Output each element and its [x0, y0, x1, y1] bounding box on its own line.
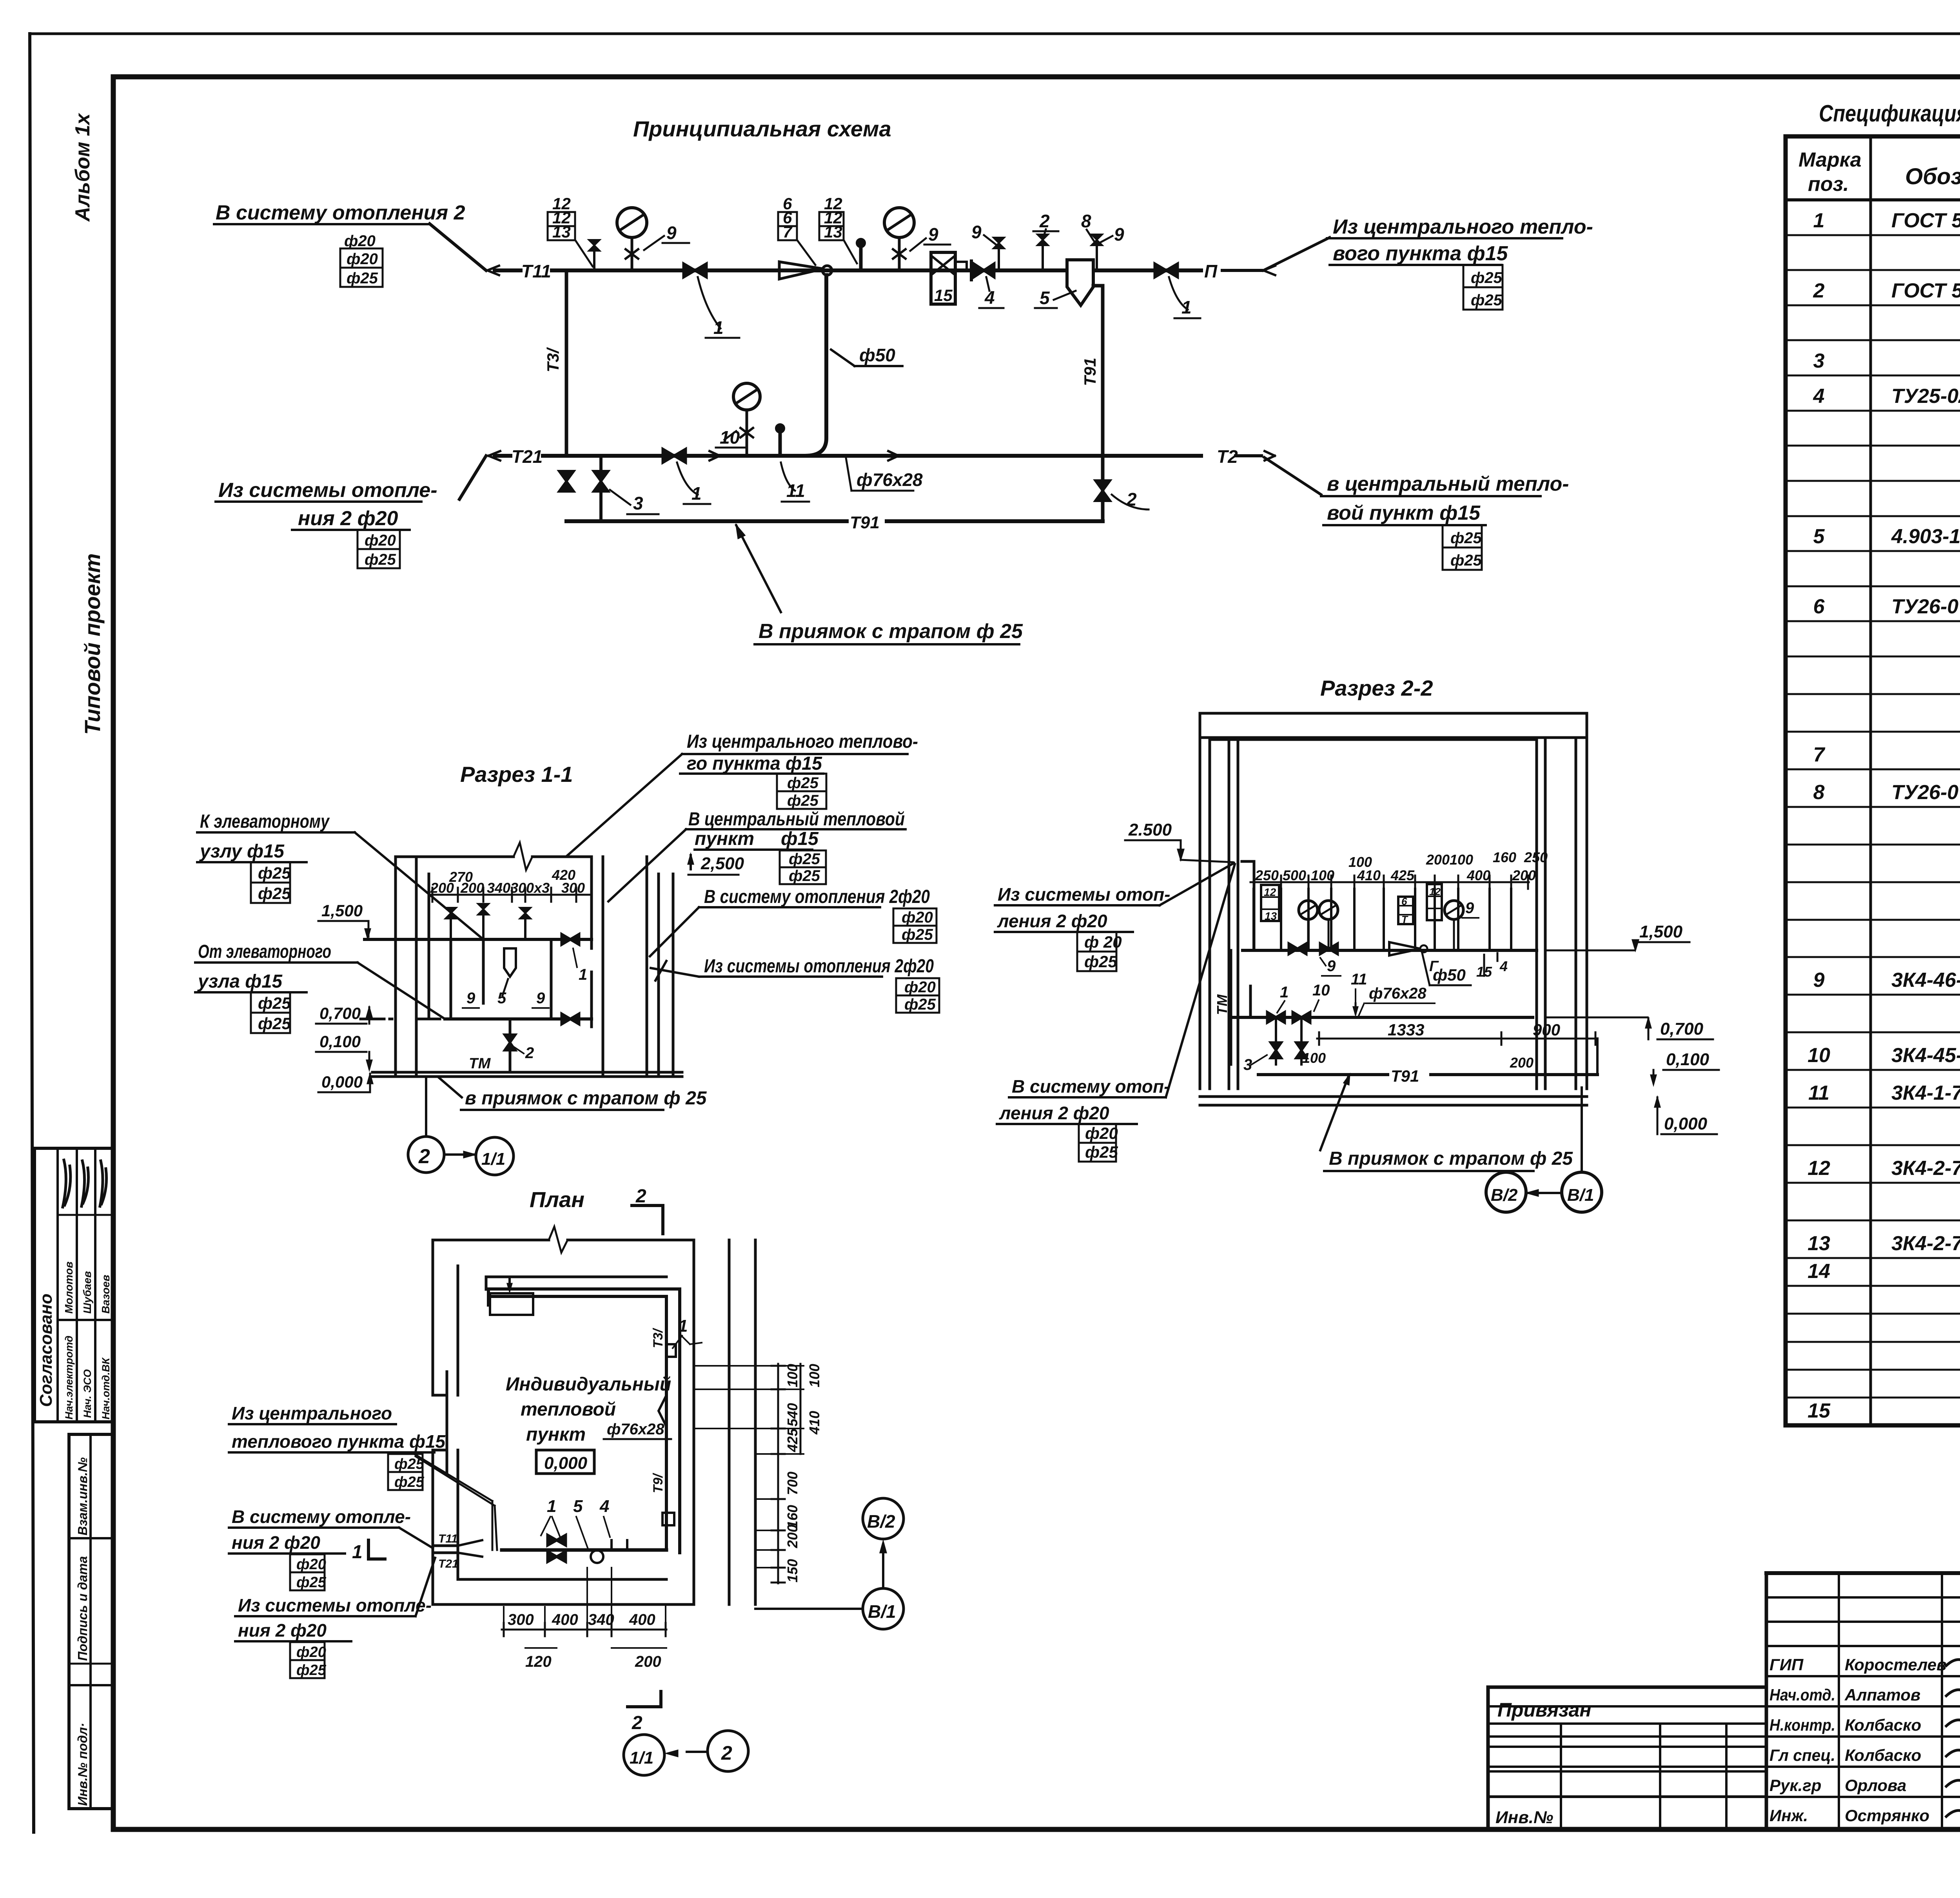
svg-text:Острянко: Острянко — [1845, 1806, 1929, 1825]
svg-text:7: 7 — [1813, 743, 1826, 766]
node: pressure gauge mid — [884, 208, 914, 237]
node: arrow at T11 start — [487, 266, 499, 275]
svg-text:410: 410 — [806, 1411, 822, 1435]
svg-text:Молотов: Молотов — [63, 1262, 75, 1314]
node: stem valve 2 — [1042, 244, 1044, 270]
svg-text:300х3: 300х3 — [510, 880, 550, 896]
wire: pipe level 1500 section 2-2 — [1243, 949, 1537, 952]
svg-text:Т21: Т21 — [438, 1557, 459, 1570]
svg-text:6: 6 — [1401, 896, 1407, 907]
valve 1 right top — [1155, 264, 1178, 277]
svg-text:В систему отопле-: В систему отопле- — [232, 1506, 411, 1527]
wire: diagonal to system heating 2 — [430, 224, 486, 270]
svg-text:Т3/: Т3/ — [544, 347, 562, 372]
svg-text:Из системы отопле-: Из системы отопле- — [238, 1595, 432, 1615]
svg-text:ления 2 ф20: ления 2 ф20 — [997, 911, 1107, 931]
wire: lower pipe in section 1-1 — [361, 1018, 592, 1021]
svg-text:Индивидуальный: Индивидуальный — [506, 1374, 671, 1395]
svg-text:10: 10 — [720, 427, 740, 448]
svg-text:В систему отопления 2: В систему отопления 2 — [216, 201, 465, 224]
node: label 9 with leader — [644, 236, 664, 250]
svg-text:300: 300 — [508, 1611, 534, 1628]
svg-text:13: 13 — [552, 223, 571, 241]
svg-text:пункт: пункт — [526, 1424, 586, 1445]
node: arrow T21 — [488, 451, 500, 460]
svg-text:2: 2 — [635, 1186, 646, 1207]
svg-text:11: 11 — [1808, 1082, 1829, 1104]
svg-text:ТУ26-07-1255-: ТУ26-07-1255- — [1891, 595, 1960, 618]
svg-text:9: 9 — [666, 223, 677, 243]
svg-text:9: 9 — [536, 990, 545, 1007]
node: section 2-2 walls — [1200, 713, 1587, 1105]
node: signatures — [1946, 1656, 1960, 1884]
svg-text:ф 20: ф 20 — [1084, 933, 1122, 951]
node: air valve item 8 — [593, 249, 595, 270]
svg-text:1: 1 — [579, 966, 587, 983]
node: title block — [1488, 1573, 1960, 1829]
svg-text:Нач.отд.ВК: Нач.отд.ВК — [100, 1357, 112, 1419]
svg-text:9: 9 — [971, 222, 982, 242]
svg-text:Коростелев: Коростелев — [1845, 1655, 1947, 1674]
svg-text:1333: 1333 — [1388, 1021, 1424, 1039]
svg-text:100: 100 — [1311, 867, 1334, 883]
svg-text:ТУ26-07-1061-73: ТУ26-07-1061-73 — [1891, 781, 1960, 804]
svg-text:ТУ25-02.160970-76: ТУ25-02.160970-76 — [1891, 385, 1960, 408]
svg-text:5: 5 — [573, 1497, 583, 1516]
svg-text:Инв.№ подл·: Инв.№ подл· — [75, 1723, 90, 1806]
svg-text:200: 200 — [460, 880, 484, 896]
svg-text:Разрез 2-2: Разрез 2-2 — [1320, 676, 1433, 700]
svg-text:ф20: ф20 — [296, 1556, 326, 1573]
svg-text:Н.контр.: Н.контр. — [1769, 1716, 1835, 1734]
svg-text:В/2: В/2 — [867, 1511, 895, 1532]
svg-text:Разрез 1-1: Разрез 1-1 — [460, 762, 573, 787]
svg-text:4: 4 — [1499, 958, 1508, 974]
svg-text:ф20: ф20 — [365, 532, 396, 549]
svg-text:0,000: 0,000 — [1664, 1114, 1708, 1133]
node: thermometer on T11 — [859, 246, 863, 270]
node: title block texts — [1495, 1595, 1960, 1882]
svg-text:200: 200 — [1510, 1055, 1534, 1071]
svg-text:700: 700 — [784, 1472, 800, 1495]
svg-text:Из системы отопления 2ф20: Из системы отопления 2ф20 — [704, 956, 934, 977]
svg-text:Т9/: Т9/ — [651, 1472, 666, 1493]
svg-text:410: 410 — [1357, 867, 1381, 883]
node: elevator item 6 — [779, 262, 823, 279]
svg-text:В/1: В/1 — [1567, 1186, 1594, 1205]
node: valves lower section 2-2 — [1267, 1012, 1285, 1022]
svg-text:0,700: 0,700 — [319, 1004, 361, 1022]
svg-text:Т: Т — [1401, 914, 1408, 925]
svg-text:100: 100 — [784, 1364, 800, 1387]
svg-text:К элеваторному: К элеваторному — [200, 811, 330, 832]
svg-text:2,500: 2,500 — [701, 854, 744, 873]
svg-text:13: 13 — [1808, 1232, 1830, 1255]
svg-text:Принципиальная схема: Принципиальная схема — [633, 116, 891, 141]
svg-text:7: 7 — [783, 223, 793, 241]
wire: upper pipe 1.500 in section 1-1 — [365, 938, 592, 941]
svg-text:Алпатов: Алпатов — [1844, 1686, 1920, 1704]
svg-text:200: 200 — [784, 1525, 800, 1548]
svg-text:400: 400 — [552, 1611, 578, 1628]
svg-text:Колбаско: Колбаско — [1845, 1746, 1921, 1764]
svg-text:П: П — [1204, 261, 1218, 281]
svg-text:2: 2 — [632, 1713, 642, 1733]
svg-text:Типовой проект: Типовой проект — [80, 553, 105, 735]
svg-text:Вазоев: Вазоев — [100, 1275, 112, 1314]
svg-text:1,500: 1,500 — [321, 901, 363, 920]
svg-text:13: 13 — [1265, 910, 1277, 922]
svg-text:вого пункта ф15: вого пункта ф15 — [1333, 242, 1508, 265]
node: plan bottom section marks — [628, 1691, 661, 1707]
svg-text:Альбом 1х: Альбом 1х — [71, 112, 94, 222]
svg-text:ния 2 ф20: ния 2 ф20 — [298, 507, 398, 530]
svg-text:15: 15 — [1808, 1399, 1831, 1422]
svg-text:8: 8 — [1813, 781, 1825, 804]
node: dimension row section 1-1 — [429, 888, 592, 902]
svg-text:ГОСТ 5761-74*: ГОСТ 5761-74* — [1891, 279, 1960, 302]
svg-text:От элеваторного: От элеваторного — [198, 941, 331, 962]
svg-text:Т91: Т91 — [1081, 358, 1099, 386]
svg-text:1/1: 1/1 — [630, 1748, 653, 1767]
svg-text:2: 2 — [525, 1044, 534, 1062]
svg-text:1: 1 — [713, 317, 724, 338]
svg-text:ГОСТ 5761-74*: ГОСТ 5761-74* — [1891, 209, 1960, 232]
wire: pipe T11 after П — [1222, 269, 1261, 272]
node: pit text section 2-2 — [1320, 1076, 1348, 1150]
node: section 1-1 walls — [372, 843, 682, 1077]
svg-text:0,700: 0,700 — [1660, 1019, 1704, 1039]
svg-text:1: 1 — [352, 1542, 363, 1563]
svg-text:4: 4 — [984, 287, 995, 308]
node: risers and instruments section 2-2 — [1242, 861, 1511, 985]
svg-text:400: 400 — [1466, 867, 1490, 883]
svg-text:1: 1 — [678, 1316, 688, 1336]
node: flow arrow mid T21 — [888, 451, 898, 460]
svg-text:Колбаско: Колбаско — [1845, 1716, 1921, 1734]
svg-text:ния 2 ф20: ния 2 ф20 — [238, 1620, 327, 1641]
svg-text:го пункта ф15: го пункта ф15 — [687, 753, 822, 774]
node: plan right dimension chain — [777, 1364, 779, 1583]
svg-text:3К4-1-75: 3К4-1-75 — [1891, 1082, 1960, 1104]
svg-text:ф25: ф25 — [258, 1014, 291, 1033]
svg-text:4.903-10, выпуск 8: 4.903-10, выпуск 8 — [1891, 525, 1960, 548]
svg-text:Т11: Т11 — [521, 261, 551, 281]
svg-text:Орлова: Орлова — [1845, 1776, 1906, 1795]
svg-text:ф25: ф25 — [1471, 292, 1503, 309]
svg-text:пункт: пункт — [695, 828, 754, 849]
node: stem valve 9a — [998, 247, 1000, 270]
svg-text:11: 11 — [786, 480, 805, 501]
svg-text:Т3/: Т3/ — [651, 1327, 666, 1348]
svg-text:ф25: ф25 — [789, 850, 820, 868]
svg-text:Подпись и дата: Подпись и дата — [75, 1556, 90, 1661]
node: flow arrow on T21 — [710, 451, 720, 460]
wire: drain line T91 — [566, 519, 1103, 523]
svg-text:3К4-46-76: 3К4-46-76 — [1891, 969, 1960, 992]
svg-text:Нач. ЭСО: Нач. ЭСО — [82, 1369, 93, 1418]
svg-text:2: 2 — [1039, 211, 1050, 231]
svg-text:ф20: ф20 — [902, 909, 933, 926]
svg-text:1: 1 — [1181, 297, 1192, 317]
svg-text:Шубаев: Шубаев — [81, 1271, 93, 1314]
node: gauge on T21 — [733, 383, 760, 410]
svg-text:15: 15 — [1476, 964, 1492, 980]
node: dimension line section 2-2 — [1250, 881, 1529, 883]
svg-text:В/1: В/1 — [868, 1601, 896, 1622]
svg-text:100: 100 — [806, 1364, 822, 1387]
svg-text:Из центрального теплово-: Из центрального теплово- — [687, 731, 918, 752]
node: dim 1333 900 — [1317, 1038, 1597, 1040]
node: plan right section circles — [863, 1498, 904, 1539]
svg-text:ТМ: ТМ — [1214, 994, 1230, 1015]
node: dirt trap item 5 — [1067, 260, 1093, 305]
svg-text:0,000: 0,000 — [321, 1073, 363, 1091]
svg-text:вой пункт ф15: вой пункт ф15 — [1327, 502, 1481, 524]
svg-text:250: 250 — [1255, 867, 1279, 883]
wire: riser T3 — [565, 270, 568, 456]
svg-text:ф25: ф25 — [347, 270, 378, 287]
svg-text:ф25: ф25 — [902, 926, 933, 943]
svg-text:12: 12 — [1429, 886, 1441, 897]
svg-text:3К4-2-75: 3К4-2-75 — [1891, 1232, 1960, 1255]
svg-text:ф25: ф25 — [296, 1574, 327, 1591]
svg-text:12: 12 — [1264, 886, 1276, 898]
svg-text:ф76х28: ф76х28 — [857, 470, 923, 490]
svg-text:ГИП: ГИП — [1769, 1655, 1804, 1674]
node: specification table grid — [1786, 136, 1960, 1425]
svg-text:12: 12 — [1808, 1157, 1830, 1180]
svg-text:15: 15 — [934, 286, 953, 305]
svg-text:ф76х28: ф76х28 — [607, 1421, 664, 1438]
svg-text:13: 13 — [824, 223, 842, 241]
svg-text:1: 1 — [547, 1497, 556, 1516]
svg-text:Рук.гр: Рук.гр — [1769, 1776, 1821, 1795]
svg-text:ф50: ф50 — [859, 345, 895, 365]
svg-text:ф50: ф50 — [1433, 966, 1466, 984]
svg-text:ф25: ф25 — [787, 774, 819, 792]
svg-text:0,100: 0,100 — [1666, 1050, 1710, 1069]
svg-text:ф25: ф25 — [365, 551, 396, 568]
svg-text:в центральный тепло-: в центральный тепло- — [1327, 473, 1569, 495]
node: plan bottom dimension chain — [502, 1629, 666, 1631]
svg-text:ф20: ф20 — [904, 979, 936, 996]
svg-text:Из системы отопле-: Из системы отопле- — [218, 479, 437, 502]
svg-text:340: 340 — [487, 880, 510, 896]
svg-text:Нач.отд.: Нач.отд. — [1769, 1686, 1835, 1704]
node: plan room labels — [506, 1374, 671, 1445]
svg-text:тепловой: тепловой — [521, 1399, 616, 1420]
svg-text:В приямок с трапом ф 25: В приямок с трапом ф 25 — [1329, 1148, 1573, 1169]
wire: drain line section 2-2 — [1258, 1073, 1597, 1076]
svg-text:5: 5 — [497, 990, 506, 1007]
svg-text:425: 425 — [784, 1428, 800, 1452]
svg-text:Из центрального: Из центрального — [232, 1403, 392, 1423]
svg-text:План: План — [530, 1187, 584, 1212]
node: inventory margin table — [69, 1434, 113, 1809]
svg-text:Марка: Марка — [1798, 149, 1862, 171]
svg-text:3К4-2-75: 3К4-2-75 — [1891, 1157, 1960, 1180]
svg-text:Из системы отоп-: Из системы отоп- — [998, 884, 1170, 905]
svg-text:6: 6 — [1813, 595, 1825, 618]
svg-text:ф25: ф25 — [258, 884, 291, 903]
svg-text:9: 9 — [466, 990, 475, 1007]
svg-text:1: 1 — [691, 483, 702, 504]
wire: pipe T21 — [495, 454, 1201, 458]
svg-text:400: 400 — [629, 1611, 655, 1628]
svg-text:Т21: Т21 — [512, 446, 543, 467]
svg-text:ф25: ф25 — [258, 994, 291, 1012]
svg-text:11: 11 — [1351, 971, 1367, 988]
svg-text:ф20: ф20 — [296, 1644, 326, 1661]
svg-text:В/2: В/2 — [1491, 1186, 1518, 1205]
svg-text:100: 100 — [1302, 1050, 1326, 1066]
svg-text:1: 1 — [1280, 984, 1289, 1001]
node: to pit arrow and text — [736, 525, 781, 612]
svg-text:ф25: ф25 — [1084, 952, 1118, 971]
node: top pipe stub plan — [490, 1293, 533, 1315]
svg-text:ф20: ф20 — [1085, 1124, 1118, 1142]
svg-text:В систему отоп-: В систему отоп- — [1012, 1076, 1170, 1097]
svg-text:ф25: ф25 — [1085, 1143, 1118, 1161]
svg-text:В приямок с трапом ф 25: В приямок с трапом ф 25 — [759, 620, 1023, 643]
svg-text:150: 150 — [784, 1559, 800, 1583]
svg-text:500: 500 — [1283, 867, 1306, 883]
svg-text:200: 200 — [1426, 852, 1450, 868]
svg-text:Нач.электротд: Нач.электротд — [63, 1336, 75, 1419]
svg-text:поз.: поз. — [1808, 173, 1849, 196]
svg-text:200: 200 — [1512, 867, 1536, 883]
svg-text:250: 250 — [1524, 849, 1548, 865]
node: thermometer on T21 — [779, 431, 782, 456]
svg-text:Т91: Т91 — [850, 513, 880, 532]
svg-text:Привязан: Привязан — [1497, 1699, 1592, 1721]
node: specification rows — [1808, 209, 1960, 1422]
svg-text:900: 900 — [1533, 1021, 1560, 1039]
node: levels right section 2-2 — [1660, 1019, 1710, 1133]
wire: diagonal to outlet text — [1264, 457, 1321, 495]
valve 1 on T21 — [663, 449, 686, 462]
svg-text:120: 120 — [525, 1653, 552, 1670]
svg-text:100: 100 — [1450, 852, 1473, 868]
svg-text:Т91: Т91 — [1391, 1067, 1419, 1085]
wire: diagonal to inlet text — [1263, 237, 1330, 270]
node: drain valves item 3 — [599, 456, 603, 521]
node: stem valve 8 9 — [1096, 244, 1098, 270]
svg-text:узла ф15: узла ф15 — [197, 971, 283, 992]
svg-text:8: 8 — [1081, 211, 1091, 231]
svg-text:2: 2 — [418, 1145, 430, 1168]
svg-text:ТМ: ТМ — [469, 1055, 491, 1072]
svg-text:ф25: ф25 — [258, 864, 291, 882]
svg-text:0,000: 0,000 — [544, 1454, 588, 1473]
svg-text:1,500: 1,500 — [1639, 922, 1683, 941]
wire: plan pipe loop — [488, 1289, 680, 1553]
svg-text:425: 425 — [1390, 867, 1415, 883]
svg-text:5: 5 — [1813, 525, 1825, 548]
svg-text:9: 9 — [1465, 899, 1474, 917]
svg-text:ф76х28: ф76х28 — [1369, 985, 1426, 1002]
svg-text:В центральный тепловой: В центральный тепловой — [688, 809, 905, 830]
wire: pipe T11 — [495, 268, 1201, 272]
svg-text:узлу ф15: узлу ф15 — [199, 841, 285, 862]
svg-text:9: 9 — [928, 224, 938, 245]
node: plan valves cluster — [548, 1535, 566, 1545]
svg-text:ф25: ф25 — [787, 792, 819, 809]
node: section marker circles 1-1 — [425, 1078, 427, 1136]
svg-text:1/1: 1/1 — [481, 1149, 505, 1169]
svg-text:9: 9 — [1114, 224, 1124, 245]
wire: pipe after T2 — [1236, 454, 1261, 457]
svg-text:1: 1 — [1813, 209, 1825, 232]
svg-text:ф25: ф25 — [789, 867, 820, 885]
svg-text:300: 300 — [561, 880, 585, 896]
wire: riser at left in section 2-2 — [1242, 861, 1254, 950]
svg-text:Т11: Т11 — [438, 1532, 457, 1545]
svg-text:ф15: ф15 — [781, 828, 819, 849]
svg-text:Спецификация индивидуального: Спецификация индивидуального теплового п… — [1819, 100, 1960, 127]
svg-text:0,100: 0,100 — [319, 1032, 361, 1051]
svg-text:9: 9 — [1813, 969, 1825, 992]
node: approval table — [34, 1148, 113, 1422]
wire: outer left border — [30, 34, 34, 1832]
svg-text:2: 2 — [1813, 279, 1825, 302]
svg-text:теплового пункта ф15: теплового пункта ф15 — [232, 1431, 446, 1452]
svg-text:ления 2 ф20: ления 2 ф20 — [999, 1103, 1109, 1123]
svg-text:14: 14 — [1808, 1260, 1830, 1283]
wire: outer top border — [31, 33, 1960, 35]
svg-text:в приямок с трапом ф 25: в приямок с трапом ф 25 — [465, 1088, 707, 1109]
svg-text:160: 160 — [1493, 849, 1516, 865]
svg-text:Взам.инв.№: Взам.инв.№ — [75, 1457, 90, 1535]
svg-text:2: 2 — [1126, 489, 1137, 509]
wire: elevator outlet riser f50 — [805, 275, 826, 456]
svg-text:4: 4 — [599, 1497, 609, 1516]
wire: diagonal from heating system return — [459, 456, 486, 499]
node: section marker circles 2-2 — [1486, 1172, 1526, 1212]
node: T11 T21 stubs — [433, 1546, 458, 1553]
svg-text:Инв.№: Инв.№ — [1495, 1808, 1553, 1827]
svg-text:Согласовано: Согласовано — [36, 1294, 56, 1407]
svg-text:ф25: ф25 — [1450, 552, 1482, 569]
svg-text:2.500: 2.500 — [1128, 820, 1172, 839]
node: arrow to central heating inlet — [1263, 266, 1275, 275]
svg-text:Инж.: Инж. — [1769, 1806, 1808, 1825]
svg-text:200: 200 — [430, 880, 454, 896]
svg-text:200: 200 — [635, 1653, 661, 1670]
svg-text:ф20: ф20 — [347, 250, 378, 268]
svg-text:10: 10 — [1312, 982, 1330, 999]
node: pressure gauge left — [617, 208, 647, 237]
valve 4 — [970, 261, 973, 280]
svg-text:ф25: ф25 — [394, 1474, 425, 1490]
svg-text:В систему отопления 2ф20: В систему отопления 2ф20 — [704, 886, 930, 907]
svg-text:4: 4 — [1813, 385, 1825, 408]
node: plan walls — [433, 1227, 755, 1604]
valve 1 on T11 — [684, 264, 706, 277]
svg-text:ния 2 ф20: ния 2 ф20 — [232, 1532, 320, 1553]
svg-text:5: 5 — [1040, 288, 1050, 308]
svg-text:ф25: ф25 — [904, 996, 936, 1013]
svg-text:540: 540 — [784, 1403, 800, 1427]
svg-text:Гл спец.: Гл спец. — [1769, 1746, 1835, 1764]
svg-text:ф20: ф20 — [344, 232, 376, 250]
svg-text:3К4-45-70: 3К4-45-70 — [1891, 1044, 1960, 1067]
node: valves cluster section 1-1 — [445, 904, 587, 1072]
svg-text:ф25: ф25 — [1471, 269, 1503, 286]
wire: lower pipe section 2-2 — [1231, 1016, 1533, 1019]
svg-text:Обозначение: Обозначение — [1905, 164, 1960, 189]
